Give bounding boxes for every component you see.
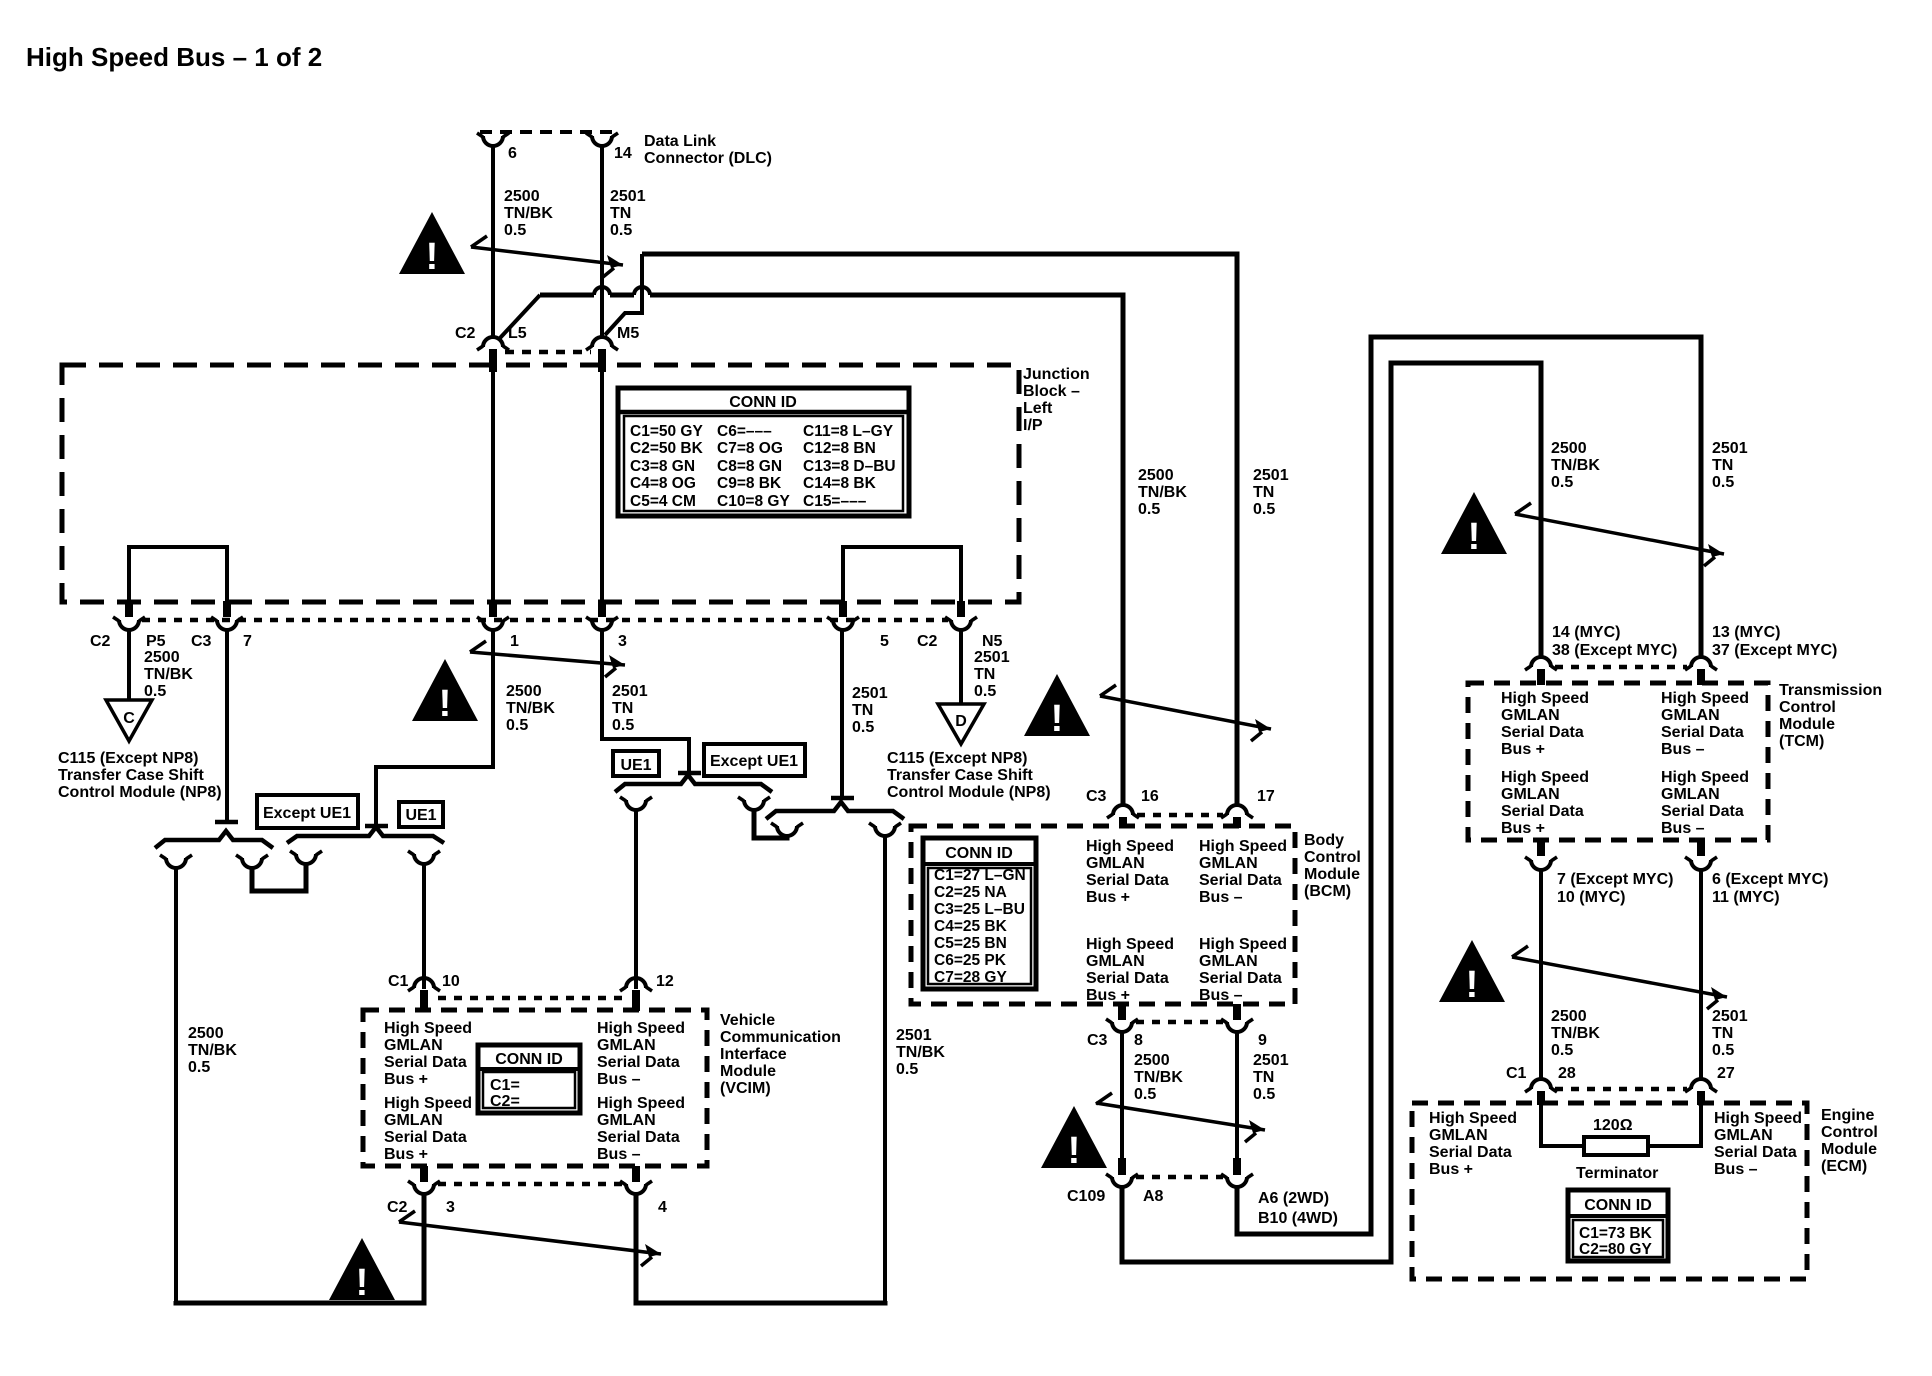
terminal 7 [211, 617, 243, 630]
svg-text:Bus –: Bus – [1661, 741, 1705, 758]
svg-text:UE1: UE1 [620, 757, 651, 774]
hop over wire at x=602 [594, 287, 610, 295]
svg-text:14 (MYC): 14 (MYC) [1552, 624, 1620, 641]
terminal M5 pin stub [598, 349, 606, 372]
svg-text:C8=8 GN: C8=8 GN [717, 458, 782, 475]
svg-text:GMLAN: GMLAN [1429, 1127, 1488, 1144]
svg-text:0.5: 0.5 [1138, 501, 1160, 518]
svg-text:10 (MYC): 10 (MYC) [1557, 889, 1625, 906]
svg-text:14: 14 [614, 145, 632, 162]
svg-text:2500: 2500 [506, 683, 542, 700]
wire 2501 TCM to ECM [1699, 870, 1703, 1079]
warning triangle (BCM pins 16/17) [1024, 674, 1090, 740]
svg-text:C2: C2 [387, 1199, 408, 1216]
svg-text:TN/BK: TN/BK [506, 700, 555, 717]
wire 2500 from BCM pin 8 [1120, 1032, 1124, 1158]
svg-text:Module: Module [720, 1063, 776, 1080]
svg-text:3: 3 [446, 1199, 455, 1216]
svg-text:P5: P5 [146, 633, 166, 650]
svg-text:GMLAN: GMLAN [597, 1037, 656, 1054]
svg-text:2501: 2501 [852, 685, 888, 702]
svg-text:10: 10 [442, 973, 460, 990]
wire from junction block pin 5 [840, 630, 844, 797]
svg-text:C9=8 BK: C9=8 BK [717, 475, 782, 492]
svg-text:C3: C3 [1086, 788, 1107, 805]
svg-text:Serial Data: Serial Data [1199, 970, 1282, 987]
twisted pair arrow (BCM to C109) [1096, 1093, 1265, 1142]
svg-text:High Speed: High Speed [1714, 1110, 1802, 1127]
svg-text:0.5: 0.5 [504, 222, 526, 239]
svg-text:Module: Module [1821, 1141, 1877, 1158]
svg-text:2500: 2500 [188, 1025, 224, 1042]
terminator resistor leads [1541, 1104, 1584, 1146]
svg-text:Serial Data: Serial Data [597, 1054, 680, 1071]
svg-text:8: 8 [1134, 1032, 1143, 1049]
svg-text:C2=50 BK: C2=50 BK [630, 440, 704, 457]
svg-text:GMLAN: GMLAN [597, 1112, 656, 1129]
Junction Block - Left I/P dashed box [62, 365, 1019, 602]
svg-text:Serial Data: Serial Data [1714, 1144, 1797, 1161]
svg-text:37 (Except MYC): 37 (Except MYC) [1712, 642, 1837, 659]
svg-text:C7=8 OG: C7=8 OG [717, 440, 783, 457]
svg-text:Bus –: Bus – [1199, 889, 1243, 906]
junction block internal bus P5 to 7 [129, 547, 227, 601]
svg-text:Bus –: Bus – [597, 1146, 641, 1163]
pin 12 stub [632, 990, 640, 1011]
jumper loop between left braces [252, 862, 306, 891]
svg-text:CONN ID: CONN ID [1584, 1197, 1652, 1214]
svg-text:C5=25 BN: C5=25 BN [934, 935, 1007, 952]
svg-text:C2=80 GY: C2=80 GY [1579, 1241, 1652, 1258]
svg-text:2501: 2501 [610, 188, 646, 205]
svg-text:(TCM): (TCM) [1779, 733, 1824, 750]
svg-text:TN: TN [610, 205, 631, 222]
warning triangle (VCIM pins 3/4) [329, 1238, 395, 1304]
svg-text:17: 17 [1257, 788, 1275, 805]
pin 10 stub [420, 990, 428, 1011]
svg-text:High Speed: High Speed [1501, 769, 1589, 786]
terminal 1 [477, 617, 509, 630]
svg-text:C15=–––: C15=––– [803, 493, 867, 510]
svg-text:Data Link: Data Link [644, 133, 716, 150]
svg-text:UE1: UE1 [405, 807, 436, 824]
svg-text:2501: 2501 [974, 649, 1010, 666]
svg-text:2501: 2501 [612, 683, 648, 700]
svg-text:Communication: Communication [720, 1029, 841, 1046]
BCM top terminals [1107, 805, 1139, 818]
wire 2500 from C109 A8 to TCM pin 14/38 [1122, 363, 1541, 1262]
pin 5 stub [839, 601, 847, 617]
svg-text:M5: M5 [617, 325, 639, 342]
brace terminal (x636) [620, 797, 652, 810]
svg-text:C14=8 BK: C14=8 BK [803, 475, 877, 492]
svg-text:C2: C2 [455, 325, 476, 342]
warning triangle (junction block pins 1/3) [412, 659, 478, 725]
svg-text:2501: 2501 [896, 1027, 932, 1044]
twisted pair arrow (BCM pins 16/17) [1100, 685, 1271, 741]
svg-text:C1: C1 [1506, 1065, 1527, 1082]
svg-text:C3=8 GN: C3=8 GN [630, 458, 695, 475]
svg-text:0.5: 0.5 [974, 683, 996, 700]
svg-text:12: 12 [656, 973, 674, 990]
svg-text:0.5: 0.5 [1712, 474, 1734, 491]
splice brace L2 (UE1 group) [287, 827, 444, 843]
wire 2501 TN from N5 [959, 630, 963, 704]
warning triangle (TCM top) [1441, 492, 1507, 558]
svg-text:TN: TN [852, 702, 873, 719]
svg-text:A8: A8 [1143, 1188, 1164, 1205]
svg-text:0.5: 0.5 [1134, 1086, 1156, 1103]
bus wire 2500 to BCM pin 16: diagonal from L5 [500, 295, 540, 338]
svg-text:CONN ID: CONN ID [945, 845, 1013, 862]
svg-text:5: 5 [880, 633, 889, 650]
svg-text:Bus +: Bus + [1501, 820, 1545, 837]
svg-text:C10=8 GY: C10=8 GY [717, 493, 790, 510]
CONN ID table (ECM) [1568, 1190, 1668, 1261]
Except UE1 option box (middle) [704, 744, 805, 776]
svg-text:TN/BK: TN/BK [1551, 1025, 1600, 1042]
splice brace L1 (Except UE1 group) [155, 831, 273, 848]
brace terminal (x176) [160, 855, 192, 868]
svg-text:7: 7 [243, 633, 252, 650]
ECM dashed box [1412, 1103, 1807, 1279]
terminal 12 [620, 978, 652, 991]
svg-text:0.5: 0.5 [896, 1061, 918, 1078]
svg-text:High Speed: High Speed [1501, 690, 1589, 707]
terminal 3 [408, 1181, 440, 1194]
svg-text:Serial Data: Serial Data [1429, 1144, 1512, 1161]
svg-text:Serial Data: Serial Data [1501, 803, 1584, 820]
svg-text:C1=27 L–GN: C1=27 L–GN [934, 867, 1026, 884]
CONN ID table (VCIM) [478, 1045, 580, 1113]
svg-text:High Speed: High Speed [1199, 838, 1287, 855]
svg-text:Module: Module [1779, 716, 1835, 733]
pin 7 stub [223, 601, 231, 617]
bottom rail left (to VCIM pin 3) [176, 1194, 424, 1303]
svg-text:N5: N5 [982, 633, 1003, 650]
TCM bottom pins [1537, 840, 1545, 856]
svg-text:Module: Module [1304, 866, 1360, 883]
brace terminal (x252) [236, 855, 268, 868]
brace terminal (x885) [869, 823, 901, 836]
svg-text:TN: TN [1712, 457, 1733, 474]
svg-text:2500: 2500 [1551, 1008, 1587, 1025]
svg-text:(VCIM): (VCIM) [720, 1080, 771, 1097]
twisted pair arrow (DLC) [471, 236, 623, 277]
svg-text:C11=8 L–GY: C11=8 L–GY [803, 423, 894, 440]
svg-text:TN/BK: TN/BK [1134, 1069, 1183, 1086]
warning triangle (DLC) [399, 212, 465, 278]
svg-text:Bus +: Bus + [1086, 987, 1130, 1004]
brace terminal (x787) [771, 823, 803, 836]
svg-text:GMLAN: GMLAN [1501, 786, 1560, 803]
svg-text:0.5: 0.5 [506, 717, 528, 734]
svg-text:Transmission: Transmission [1779, 682, 1882, 699]
svg-text:GMLAN: GMLAN [1086, 855, 1145, 872]
ECM top connector face dashed line [1555, 1087, 1687, 1092]
svg-text:C13=8 D–BU: C13=8 D–BU [803, 458, 896, 475]
svg-text:4: 4 [658, 1199, 667, 1216]
svg-text:Serial Data: Serial Data [1086, 872, 1169, 889]
svg-text:GMLAN: GMLAN [1714, 1127, 1773, 1144]
svg-text:Except UE1: Except UE1 [263, 805, 351, 822]
svg-text:Bus –: Bus – [1199, 987, 1243, 1004]
UE1 option box (middle) [613, 751, 659, 776]
junction block bottom connector face dashed line [142, 618, 948, 623]
junction block internal wire L5 to pin 1 [491, 371, 495, 601]
svg-text:TN: TN [1253, 1069, 1274, 1086]
BCM bottom pins 8 and 9 [1118, 1004, 1126, 1020]
svg-text:High Speed: High Speed [1086, 936, 1174, 953]
DLC connector face dashed line bottom [505, 350, 591, 355]
svg-text:(BCM): (BCM) [1304, 883, 1351, 900]
svg-text:Control Module (NP8): Control Module (NP8) [58, 784, 222, 801]
wire 2500 TCM to ECM [1539, 870, 1543, 1079]
svg-text:13 (MYC): 13 (MYC) [1712, 624, 1780, 641]
svg-text:2501: 2501 [1712, 1008, 1748, 1025]
DLC pin 14 terminal [586, 133, 618, 146]
svg-text:High Speed: High Speed [1661, 690, 1749, 707]
wire 2501 from C109 A6/B10 to TCM pin 13/37 [1237, 337, 1701, 1234]
svg-text:3: 3 [618, 633, 627, 650]
svg-text:GMLAN: GMLAN [1661, 786, 1720, 803]
svg-text:0.5: 0.5 [612, 717, 634, 734]
svg-text:2500: 2500 [144, 649, 180, 666]
svg-text:Control Module (NP8): Control Module (NP8) [887, 784, 1051, 801]
svg-text:GMLAN: GMLAN [384, 1112, 443, 1129]
TCM dashed box [1468, 683, 1768, 840]
svg-text:High Speed: High Speed [1199, 936, 1287, 953]
hop over wire at x=642 [634, 287, 650, 295]
svg-text:C115 (Except NP8): C115 (Except NP8) [887, 750, 1028, 767]
svg-text:Control: Control [1821, 1124, 1878, 1141]
svg-text:38 (Except MYC): 38 (Except MYC) [1552, 642, 1677, 659]
svg-text:0.5: 0.5 [852, 719, 874, 736]
bottom rail right (VCIM pin 4 to splice) [636, 1194, 885, 1303]
wire from UE1 splice to VCIM pin 10 [422, 862, 426, 989]
VCIM bottom pins [420, 1166, 428, 1182]
brace terminal (x424) [408, 851, 440, 864]
connector C triangle [106, 700, 152, 741]
svg-text:C3: C3 [1087, 1032, 1108, 1049]
CONN ID table (BCM) [923, 838, 1036, 989]
svg-text:0.5: 0.5 [1712, 1042, 1734, 1059]
BCM top connector face dashed line [1137, 813, 1223, 818]
svg-text:0.5: 0.5 [1253, 501, 1275, 518]
wire end tick (pin 7) [215, 820, 238, 825]
svg-text:TN/BK: TN/BK [188, 1042, 237, 1059]
svg-text:Serial Data: Serial Data [1661, 803, 1744, 820]
twisted pair arrow (TCM top) [1515, 503, 1724, 566]
wire 2500 TN/BK from DLC pin 6 [491, 145, 495, 337]
svg-text:C2=25 NA: C2=25 NA [934, 884, 1007, 901]
CONN ID table (junction block) [618, 388, 909, 516]
svg-text:Terminator: Terminator [1576, 1165, 1658, 1182]
svg-text:GMLAN: GMLAN [1199, 953, 1258, 970]
brace terminal (x754) [738, 797, 770, 810]
svg-text:High Speed: High Speed [597, 1020, 685, 1037]
Except UE1 option box (left) [257, 795, 358, 828]
svg-text:Serial Data: Serial Data [384, 1054, 467, 1071]
svg-text:Serial Data: Serial Data [384, 1129, 467, 1146]
wire 2501 TN from DLC pin 14 [600, 145, 604, 337]
svg-text:9: 9 [1258, 1032, 1267, 1049]
pin N5 stub [957, 601, 965, 617]
BCM dashed box [911, 826, 1295, 1004]
svg-text:GMLAN: GMLAN [384, 1037, 443, 1054]
terminal 3 [586, 617, 618, 630]
svg-text:C109: C109 [1067, 1188, 1105, 1205]
svg-text:0.5: 0.5 [188, 1059, 210, 1076]
wire 2500 TN/BK from P5 [127, 630, 131, 700]
warning triangle (ECM top) [1439, 940, 1505, 1006]
svg-text:GMLAN: GMLAN [1501, 707, 1560, 724]
svg-text:High Speed: High Speed [597, 1095, 685, 1112]
wire end tick (pin 1 branch) [365, 824, 388, 829]
svg-text:High Speed: High Speed [384, 1095, 472, 1112]
svg-text:16: 16 [1141, 788, 1159, 805]
junction block terminal L5 [477, 337, 509, 350]
svg-text:0.5: 0.5 [1253, 1086, 1275, 1103]
svg-text:High Speed: High Speed [1661, 769, 1749, 786]
svg-text:C1=73 BK: C1=73 BK [1579, 1225, 1653, 1242]
VCIM top connector face dashed line [438, 996, 622, 1001]
svg-text:C1=: C1= [490, 1077, 520, 1094]
svg-text:Bus –: Bus – [1661, 820, 1705, 837]
UE1 option box (left) [399, 802, 443, 827]
svg-text:Serial Data: Serial Data [1086, 970, 1169, 987]
splice brace M1 (UE1 / Except UE1) [615, 775, 772, 792]
svg-text:GMLAN: GMLAN [1199, 855, 1258, 872]
svg-text:(ECM): (ECM) [1821, 1158, 1867, 1175]
TCM top terminals [1525, 657, 1557, 670]
pin 3 stub [598, 601, 606, 617]
svg-text:2500: 2500 [1551, 440, 1587, 457]
svg-text:High Speed: High Speed [1086, 838, 1174, 855]
svg-text:GMLAN: GMLAN [1086, 953, 1145, 970]
brace terminal (x306) [290, 851, 322, 864]
svg-text:Vehicle: Vehicle [720, 1012, 775, 1029]
wire from junction block pin 1 with jog [376, 630, 493, 825]
svg-text:C1=50 GY: C1=50 GY [630, 423, 703, 440]
svg-text:27: 27 [1717, 1065, 1735, 1082]
svg-text:Except UE1: Except UE1 [710, 753, 798, 770]
svg-text:Connector (DLC): Connector (DLC) [644, 150, 772, 167]
terminal P5 [113, 617, 145, 630]
terminal 4 [620, 1181, 652, 1194]
svg-text:High Speed: High Speed [1429, 1110, 1517, 1127]
twisted pair arrow (VCIM pins 3/4) [399, 1211, 661, 1266]
svg-text:7 (Except MYC): 7 (Except MYC) [1557, 871, 1673, 888]
svg-text:0.5: 0.5 [1551, 1042, 1573, 1059]
bus wire 2500 horizontal run with hops [540, 293, 594, 298]
terminal L5 pin stub [489, 349, 497, 372]
svg-text:Bus +: Bus + [384, 1146, 428, 1163]
svg-text:C6=–––: C6=––– [717, 423, 772, 440]
wire from junction block pin 7 [225, 630, 229, 821]
svg-text:C2: C2 [917, 633, 938, 650]
VCIM dashed box [363, 1010, 707, 1166]
svg-text:120Ω: 120Ω [1593, 1117, 1633, 1134]
svg-text:A6 (2WD): A6 (2WD) [1258, 1190, 1329, 1207]
svg-text:CONN ID: CONN ID [729, 394, 797, 411]
svg-text:6 (Except MYC): 6 (Except MYC) [1712, 871, 1828, 888]
svg-text:Bus +: Bus + [1086, 889, 1130, 906]
svg-text:C7=28 GY: C7=28 GY [934, 969, 1007, 986]
svg-text:D: D [955, 713, 967, 730]
svg-text:Bus +: Bus + [1429, 1161, 1473, 1178]
svg-text:2500: 2500 [1134, 1052, 1170, 1069]
BCM bottom connector face dashed line [1136, 1020, 1223, 1025]
resistor 120 ohm [1584, 1137, 1648, 1155]
svg-text:Bus +: Bus + [384, 1071, 428, 1088]
svg-text:Serial Data: Serial Data [597, 1129, 680, 1146]
twisted pair arrow (ECM top) [1512, 946, 1727, 1009]
svg-text:Bus +: Bus + [1501, 741, 1545, 758]
terminal N5 [945, 617, 977, 630]
splice brace M2 (pin 5 group) [766, 802, 904, 819]
pin P5 stub [125, 601, 133, 617]
svg-text:Left: Left [1023, 400, 1053, 417]
svg-text:C5=4 CM: C5=4 CM [630, 493, 696, 510]
svg-text:2501: 2501 [1712, 440, 1748, 457]
svg-text:C4=25 BK: C4=25 BK [934, 918, 1008, 935]
warning triangle (BCM to C109) [1041, 1106, 1107, 1172]
svg-text:2501: 2501 [1253, 1052, 1289, 1069]
terminal 10 [408, 978, 440, 991]
svg-text:2500: 2500 [1138, 467, 1174, 484]
svg-text:11 (MYC): 11 (MYC) [1712, 889, 1780, 906]
svg-text:Serial Data: Serial Data [1501, 724, 1584, 741]
svg-text:C115 (Except NP8): C115 (Except NP8) [58, 750, 199, 767]
svg-text:Transfer Case Shift: Transfer Case Shift [887, 767, 1034, 784]
svg-text:C: C [123, 710, 135, 727]
svg-text:Junction: Junction [1023, 366, 1090, 383]
svg-text:Bus –: Bus – [597, 1071, 641, 1088]
svg-text:0.5: 0.5 [144, 683, 166, 700]
wire from splice down to right rail [883, 834, 887, 1301]
svg-text:C1: C1 [388, 973, 409, 990]
junction block terminal M5 [586, 337, 618, 350]
long wire from Except UE1 splice down to rail [174, 866, 178, 1301]
Data Link Connector (DLC) dashed outline top [480, 130, 616, 134]
svg-text:High Speed: High Speed [384, 1020, 472, 1037]
svg-text:Block –: Block – [1023, 383, 1080, 400]
svg-text:0.5: 0.5 [1551, 474, 1573, 491]
svg-text:C3=25 L–BU: C3=25 L–BU [934, 901, 1025, 918]
VCIM bottom connector face dashed line [438, 1182, 622, 1187]
svg-text:C4=8 OG: C4=8 OG [630, 475, 696, 492]
wire 2501 from BCM pin 9 [1235, 1032, 1239, 1158]
wire end tick (pin 5) [831, 796, 854, 801]
svg-text:High Speed Bus – 1 of 2: High Speed Bus – 1 of 2 [26, 42, 322, 72]
svg-text:C12=8 BN: C12=8 BN [803, 440, 876, 457]
svg-text:GMLAN: GMLAN [1661, 707, 1720, 724]
svg-text:TN: TN [974, 666, 995, 683]
svg-text:TN: TN [1253, 484, 1274, 501]
svg-text:Control: Control [1779, 699, 1836, 716]
svg-text:Serial Data: Serial Data [1661, 724, 1744, 741]
bus wire 2501 horizontal run [642, 254, 1237, 806]
svg-text:CONN ID: CONN ID [495, 1051, 563, 1068]
svg-text:Serial Data: Serial Data [1199, 872, 1282, 889]
svg-text:C6=25 PK: C6=25 PK [934, 952, 1007, 969]
svg-text:TN: TN [612, 700, 633, 717]
terminal 5 [827, 617, 859, 630]
svg-text:TN/BK: TN/BK [1138, 484, 1187, 501]
C109 connector face dashed line [1136, 1175, 1223, 1180]
svg-text:Body: Body [1304, 832, 1344, 849]
